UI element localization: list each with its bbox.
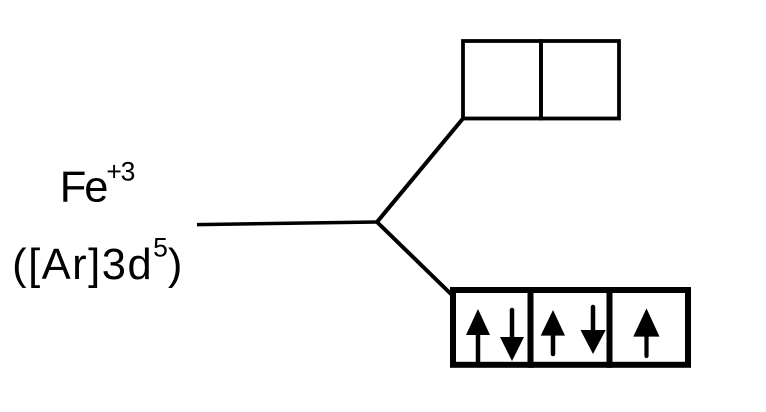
electron arrow down, box t2g1 <box>500 310 524 361</box>
electron arrow up, box t2g1 <box>466 309 490 361</box>
wire diagonal down to t2g boxes <box>377 222 452 295</box>
wire horizontal from label to branch point <box>197 222 377 225</box>
electron arrow down, box t2g2 <box>581 307 606 354</box>
orbital box t2g 1 <box>453 290 531 365</box>
svg-text:Fe+3: Fe+3 <box>60 157 135 212</box>
wire diagonal up to eg boxes <box>377 119 463 223</box>
orbital box t2g 2 <box>531 290 610 365</box>
svg-text:([Ar]3d5): ([Ar]3d5) <box>12 232 184 289</box>
orbital box t2g 3 <box>610 290 689 365</box>
orbital box eg 2 (empty) <box>541 41 619 119</box>
orbital box eg 1 (empty) <box>463 41 541 119</box>
electron arrow up, box t2g2 <box>541 310 565 354</box>
electron arrow up, box t2g3 <box>633 308 659 356</box>
